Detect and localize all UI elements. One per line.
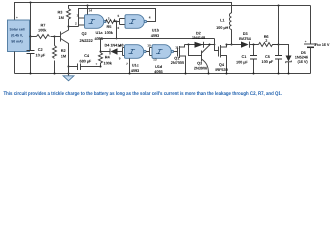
diode D2 1N4148 [195,42,204,48]
C5 label [262,54,274,64]
R4 value label [104,55,113,66]
svg-text:D4 1N4148: D4 1N4148 [105,43,125,48]
wire U1d output to Q1 gate [174,51,178,53]
capacitor C4 [78,64,81,71]
node D2 cathode junction [209,44,211,46]
R7 value label [38,22,47,32]
wire timing horizontal [101,38,215,40]
node Q4 drain junction [226,44,228,46]
transistor Q2 [55,27,69,67]
op-amp U1b gate 4093 [125,15,147,29]
Q2 label [80,31,94,43]
wire pin 14 stub [87,6,89,15]
wire ground rail [15,73,311,75]
node U1a input junction [68,26,70,28]
pin 13 label [153,58,157,62]
transistor Q1 2N7000 [178,45,186,74]
pin 4 label [149,16,151,20]
wire Q4 gate dogleg [215,39,219,51]
wire U1a input node [69,26,79,28]
node R6 right junction [278,44,280,46]
svg-text:100 µF: 100 µF [262,59,274,64]
svg-text:7: 7 [126,62,128,66]
wire solar cell bottom [14,52,16,74]
C1 label [236,54,248,64]
wire VDD right drop [278,6,280,45]
svg-text:2N7000: 2N7000 [171,60,184,65]
D4 label [105,43,125,48]
wire Q3 base tie [189,45,202,56]
Q1 label [171,56,184,65]
inductor L1 [229,13,231,45]
wire drop to R7 node [30,3,32,37]
transistor Q4 IRF530 [219,45,227,74]
pin 3 label [108,17,110,21]
C4 label [80,53,92,64]
pin 6 label [118,26,120,30]
svg-text:2N3906: 2N3906 [194,65,208,70]
pin 10 label [147,43,151,47]
pin 14 label [89,9,93,13]
op-amp U1c gate 4093 [125,45,147,59]
pin 7 stub [129,59,131,74]
svg-text:10 µF: 10 µF [36,53,46,58]
svg-text:1M: 1M [59,15,64,20]
node R5 output junction [116,21,118,23]
svg-text:100k: 100k [104,61,113,66]
pin 8 label [119,44,121,48]
svg-text:+: + [96,62,98,66]
L1 label [216,18,228,30]
svg-text:1M: 1M [61,54,66,59]
op-amp U1a gate 4093 [85,15,107,29]
diode D3 BAT54 [241,42,259,48]
R6 value label [264,34,270,43]
svg-text:U1a: U1a [96,30,104,35]
svg-text:1N4148: 1N4148 [192,35,206,40]
svg-text:(0.45 V,: (0.45 V, [11,34,23,38]
node ground junctions [30,73,290,75]
U1d label [154,64,163,74]
solar cell [8,20,30,52]
resistor R2 [53,37,57,74]
pin 11 label [175,46,179,50]
svg-text:Solar cell: Solar cell [9,28,24,32]
svg-text:This circuit provides a trickl: This circuit provides a trickle charge t… [4,91,283,97]
wire VDD rail [69,6,311,9]
node pin14 junction [87,5,89,7]
node solar rail drop [30,2,32,4]
battery label [314,42,330,47]
svg-text:5: 5 [118,14,120,18]
svg-text:3 to 16 V: 3 to 16 V [314,42,330,47]
pin 1 label [77,14,79,18]
svg-text:100 µF: 100 µF [236,60,248,65]
R5 value label [105,24,114,35]
svg-text:4093: 4093 [131,68,140,73]
svg-text:U1b: U1b [152,28,160,33]
solar cell plus mark [16,15,18,19]
svg-text:U1c: U1c [132,63,140,68]
battery plus mark [305,40,307,44]
U1b label [151,28,160,39]
node L1 bottom junction [231,44,233,46]
wire U1b input bracket [117,19,126,25]
resistor R6 [259,43,279,47]
svg-text:10: 10 [147,43,151,47]
node R7 left junction [30,36,32,38]
node VDD right drop [278,5,280,7]
svg-text:1: 1 [77,14,79,18]
R3 value label [58,10,64,20]
wire timing node vertical [116,22,118,39]
transistor Q3 2N3906 [202,45,210,73]
svg-text:100k: 100k [38,28,47,33]
pin 5 label [118,14,120,18]
capacitor C2 [27,37,35,74]
Q4 label [215,62,227,72]
U1c label [131,63,140,74]
node Q2 emitter junction [68,66,70,68]
R2 value label [61,48,67,59]
svg-text:4: 4 [149,16,151,20]
wire U1c out to U1d in [146,48,152,56]
wire D5 branch [279,45,289,56]
pin 12 label [153,43,157,47]
wire solar top rail [15,3,232,21]
resistor R5 [106,20,117,24]
pin 7 label [126,62,128,66]
Q3 label [194,61,208,71]
wire drain node rail [185,44,215,46]
wire emitter ground drop [68,67,70,74]
pin 2 label [75,22,77,26]
wire switch node to D3 [227,44,242,46]
svg-text:680 µF: 680 µF [80,58,92,63]
svg-text:8: 8 [119,44,121,48]
diode D5 zener [286,56,292,74]
capacitor C1 [250,45,257,74]
diode D4 1N4148 [101,48,123,54]
resistor R4 [99,52,103,67]
wire U1c input bracket [123,48,125,56]
wire timing drop to D4 node [100,39,102,52]
wire U1a input stubs [79,18,85,25]
svg-text:+: + [16,15,18,19]
svg-text:(16 V): (16 V) [298,59,309,64]
ground [63,74,74,81]
svg-text:50 mA): 50 mA) [11,40,22,44]
C2 value label [36,47,46,58]
D3 label [239,31,252,41]
resistor R7 [37,35,50,39]
svg-text:2: 2 [75,22,77,26]
svg-text:100k: 100k [105,30,114,35]
resistor R3 [67,9,71,27]
node Q1 drain junction [188,44,190,46]
battery [304,44,317,74]
svg-text:14: 14 [89,9,93,13]
svg-text:4093: 4093 [151,33,160,38]
C4 plus mark [96,62,98,66]
svg-text:6: 6 [118,26,120,30]
capacitor C5 [275,45,282,74]
svg-text:100 µH: 100 µH [216,25,228,30]
node D4/R4 junction [100,51,102,53]
svg-text:R7: R7 [41,22,46,27]
node Q2 base junction [54,36,56,38]
node dogleg junction [214,44,216,46]
svg-text:9: 9 [119,56,121,60]
svg-text:BAT54: BAT54 [239,36,252,41]
svg-text:2N2222: 2N2222 [80,38,94,43]
wire oscillator feedback loop [79,9,156,27]
wire C4 branch [69,66,101,68]
wire battery top drop [310,6,312,45]
D5 label [295,50,309,64]
op-amp U1d gate 4093 [152,45,174,59]
node R4 bottom junction [100,66,102,68]
wire R7 node rail [31,36,61,38]
svg-text:3: 3 [108,17,110,21]
node timing corner [116,38,118,40]
svg-text:U1d: U1d [155,64,163,69]
svg-text:+: + [305,40,307,44]
U1a label [95,30,104,41]
node C1 junction [253,44,255,46]
caption text [4,91,283,97]
pin 9 label [119,56,121,60]
svg-text:IRF530: IRF530 [215,67,227,72]
D2 label [192,31,206,41]
